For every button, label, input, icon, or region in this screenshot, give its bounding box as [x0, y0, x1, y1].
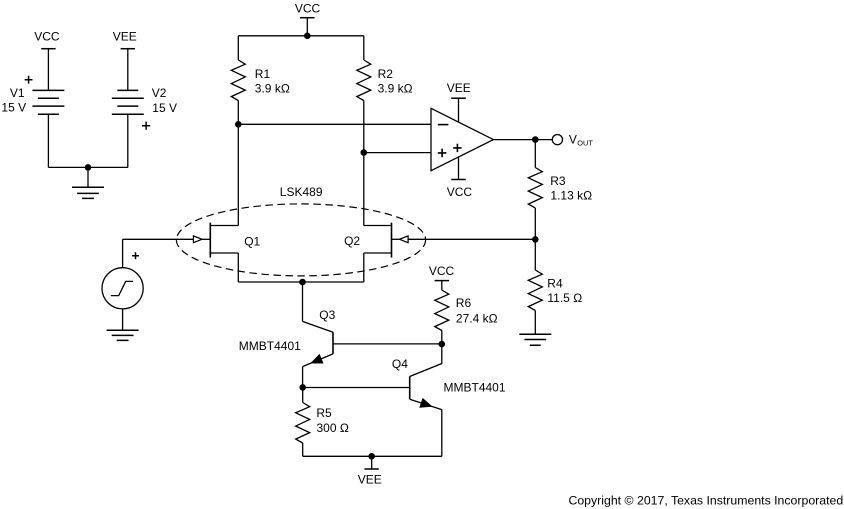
- node R2 / op-amp plus junction: [361, 149, 368, 156]
- wire R4 to ground: [534, 311, 536, 335]
- svg-text:300 Ω: 300 Ω: [317, 421, 349, 435]
- battery V1: [32, 90, 64, 114]
- wire R6 bottom: [441, 331, 443, 345]
- wire R1 bottom to minus node: [237, 101, 239, 125]
- Q1 gate arrow: [193, 236, 202, 243]
- wire R5 top: [302, 387, 304, 402]
- svg-text:27.4 kΩ: 27.4 kΩ: [456, 311, 498, 325]
- resistor R5: [296, 403, 310, 444]
- plus sign source: [132, 252, 139, 259]
- svg-text:Q3: Q3: [319, 308, 335, 322]
- svg-text:VCC: VCC: [295, 2, 321, 16]
- wire ground stem: [87, 167, 89, 187]
- LSK489 dashed ellipse: [176, 204, 425, 276]
- wire VCC stem R6: [441, 281, 443, 290]
- op-amp plus sign (polarity): [453, 144, 461, 152]
- transistor Q1 (JFET): [202, 223, 238, 282]
- op-amp plus sign (input): [438, 149, 447, 158]
- node R3/R4 junction: [532, 236, 539, 243]
- node VCC junction: [304, 33, 311, 40]
- svg-text:Q4: Q4: [392, 357, 408, 371]
- wire VCC stem op-amp: [458, 157, 460, 180]
- wire Q3 base to R6 junction: [333, 343, 442, 345]
- label VOUT: [569, 133, 593, 148]
- node VOUT junction: [532, 136, 539, 143]
- resistor R1: [231, 60, 245, 101]
- resistor R3: [528, 168, 542, 209]
- svg-text:Copyright © 2017, Texas Instru: Copyright © 2017, Texas Instruments Inco…: [568, 493, 843, 507]
- plus sign V1: [25, 76, 33, 84]
- svg-text:MMBT4401: MMBT4401: [444, 381, 506, 395]
- svg-text:3.9 kΩ: 3.9 kΩ: [255, 81, 290, 95]
- resistor R2: [357, 60, 371, 101]
- node tail junction: [299, 279, 306, 286]
- svg-text:R4: R4: [547, 276, 563, 290]
- battery V2: [112, 90, 144, 114]
- svg-text:11.5 Ω: 11.5 Ω: [547, 291, 582, 305]
- wire tail to Q3 collector: [302, 282, 304, 321]
- svg-text:VCC: VCC: [447, 185, 473, 199]
- wire source to gate corner: [122, 239, 124, 267]
- svg-text:VEE: VEE: [447, 81, 471, 95]
- wire Q1 drain vertical: [237, 124, 239, 225]
- svg-text:Q2: Q2: [344, 234, 360, 248]
- VCC terminal bar V1: [41, 48, 55, 50]
- svg-text:1.13 kΩ: 1.13 kΩ: [550, 188, 592, 202]
- VCC terminal bar (op-amp): [451, 179, 466, 181]
- svg-text:VEE: VEE: [113, 29, 137, 43]
- svg-text:R5: R5: [316, 406, 332, 420]
- wire Q2 drain vertical: [363, 153, 365, 226]
- svg-text:15 V: 15 V: [152, 101, 177, 115]
- wire top rail: [238, 35, 363, 37]
- signal source V+: [102, 268, 143, 309]
- resistor R6: [435, 290, 449, 331]
- resistor R4: [528, 270, 542, 311]
- VEE terminal bar V2: [121, 48, 135, 50]
- svg-text:OUT: OUT: [577, 139, 593, 148]
- wire V1 bottom: [47, 114, 49, 167]
- wire op-amp output: [493, 139, 552, 141]
- VCC terminal bar (R6): [435, 280, 450, 282]
- op-amp minus sign: [438, 124, 449, 126]
- wire VOUT junction to R3: [534, 140, 536, 168]
- wire bottom rail: [303, 455, 442, 457]
- wire Q4 base: [303, 387, 410, 389]
- ground (battery): [72, 187, 104, 198]
- op-amp U1: [431, 108, 493, 170]
- wire plus input: [364, 152, 431, 154]
- svg-text:VCC: VCC: [429, 264, 455, 278]
- svg-text:Q1: Q1: [244, 234, 260, 248]
- wire R3 bottom: [534, 208, 536, 239]
- svg-text:3.9 kΩ: 3.9 kΩ: [378, 81, 413, 95]
- svg-text:V2: V2: [152, 86, 167, 100]
- node VEE junction: [368, 453, 375, 460]
- Q4 emitter arrow: [420, 399, 431, 407]
- wire battery bottom rail: [48, 166, 127, 168]
- wire R2 bottom to plus node: [363, 101, 365, 153]
- svg-text:R3: R3: [550, 174, 566, 188]
- terminal VOUT circle: [552, 135, 562, 145]
- wire VEE stem: [371, 456, 373, 469]
- VEE terminal bar (op-amp): [451, 97, 466, 99]
- wire V2 bottom: [127, 114, 129, 167]
- wire Q3 emitter vertical: [302, 367, 304, 388]
- Q3 emitter arrow: [311, 355, 322, 363]
- ground (source): [107, 330, 139, 340]
- svg-text:15 V: 15 V: [1, 101, 26, 115]
- wire top rail to R2: [363, 36, 365, 60]
- wire feedback to Q2 gate: [408, 238, 535, 240]
- svg-text:MMBT4401: MMBT4401: [239, 339, 301, 353]
- wire R4 top: [534, 239, 536, 270]
- VEE terminal bar (bottom): [364, 468, 378, 470]
- node R1 / op-amp minus junction: [235, 121, 242, 128]
- svg-text:R6: R6: [456, 296, 472, 310]
- svg-text:VEE: VEE: [358, 473, 382, 487]
- wire R5 bottom: [302, 443, 304, 456]
- svg-text:V: V: [569, 133, 577, 147]
- wire source input to Q1 gate: [123, 238, 194, 240]
- transistor Q3 (BJT): [303, 321, 334, 366]
- svg-text:R2: R2: [378, 67, 394, 81]
- svg-text:LSK489: LSK489: [280, 185, 323, 199]
- node Q3 emitter / R5 / Q4 base junction: [299, 384, 306, 391]
- VCC terminal bar (top mid): [300, 17, 314, 19]
- wire top rail to R1: [237, 36, 239, 60]
- transistor Q2 (JFET): [364, 223, 400, 282]
- node battery ground junction: [85, 164, 92, 171]
- node R6 / Q3 base / Q4 collector junction: [439, 341, 446, 348]
- wire source bottom: [122, 309, 124, 330]
- wire minus input: [238, 123, 431, 125]
- wire Q4 emitter vertical: [441, 410, 443, 457]
- svg-text:R1: R1: [255, 67, 271, 81]
- wire tail rail: [238, 281, 363, 283]
- Q2 gate arrow: [400, 236, 409, 243]
- ground (R4): [519, 334, 551, 345]
- wire VEE stem op-amp: [458, 98, 460, 122]
- svg-text:V1: V1: [10, 86, 25, 100]
- wire VEE bar to V2 top: [127, 49, 129, 91]
- svg-text:VCC: VCC: [34, 29, 60, 43]
- wire VCC bar to V1 top: [47, 49, 49, 91]
- plus sign V2: [142, 122, 150, 130]
- transistor Q4 (BJT): [410, 344, 442, 410]
- wire VCC stem: [306, 18, 308, 36]
